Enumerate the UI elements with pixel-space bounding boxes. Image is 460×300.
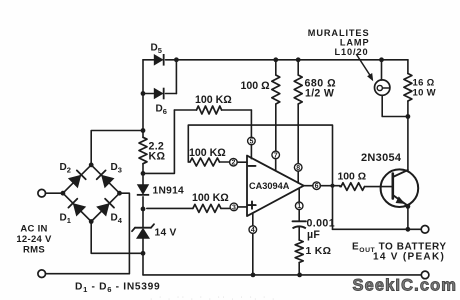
- diode 1N914: [137, 184, 149, 195]
- resistor 16 Ohm 10W: [404, 74, 412, 117]
- diode D6: [143, 60, 176, 100]
- node: 1K rail junction: [297, 273, 302, 278]
- node: pin4 rail junction: [251, 273, 256, 278]
- label 0.001 uF: [307, 218, 336, 242]
- label D5: [151, 43, 162, 56]
- svg-text:MURALITES: MURALITES: [308, 28, 370, 38]
- wire: feedback loop: [188, 125, 332, 229]
- transistor collector stroke: [393, 170, 408, 177]
- resistor 100K (pin 3): [147, 204, 230, 212]
- pin 2: [230, 158, 238, 166]
- label 16 Ohm 10 W: [413, 78, 436, 99]
- label D6: [156, 104, 167, 117]
- pin 1: [295, 202, 303, 210]
- svg-text:14 V (PEAK): 14 V (PEAK): [373, 252, 445, 263]
- label 100 KOhm (pin3): [192, 192, 229, 204]
- label 100 Ohm (pin7): [241, 80, 271, 92]
- node: lamp top junction: [379, 57, 384, 62]
- wire: lamp top lead: [381, 60, 383, 80]
- svg-text:2: 2: [231, 160, 235, 167]
- svg-text:0.001: 0.001: [307, 218, 336, 230]
- wire pin4 to edge and rail: [252, 213, 254, 275]
- op-amp U1 CA3094A triangle: [247, 156, 304, 217]
- capacitor C1 0.001uF: [293, 221, 306, 240]
- node: zener anode junction: [141, 251, 146, 256]
- node: bridge right: [117, 191, 122, 196]
- lamp L10/20: [375, 80, 390, 95]
- label D2: [60, 162, 71, 175]
- svg-text:3: 3: [232, 204, 236, 211]
- node: bridge+ junction on bus: [141, 128, 146, 133]
- node: 2.2K bottom junction: [141, 171, 146, 176]
- svg-text:1 KΩ: 1 KΩ: [306, 246, 332, 257]
- node: pin3 branch junction: [141, 207, 146, 212]
- wire pin1 to capacitor: [298, 210, 300, 221]
- diode D1 (bridge lower-left): [63, 193, 91, 221]
- svg-text:10 W: 10 W: [413, 88, 436, 99]
- faint caption fragment: [150, 292, 276, 300]
- op-amp minus sign: [249, 165, 256, 167]
- diode D5: [143, 54, 176, 66]
- label 1N914: [153, 186, 185, 197]
- wire: bridge top to left bus: [91, 131, 143, 165]
- wire: lamp bottom lead: [382, 95, 408, 116]
- terminal: Eout upper: [421, 226, 429, 234]
- pin 6: [313, 182, 321, 190]
- node: emitter-circle junction: [406, 204, 411, 209]
- resistor 680 Ohm (pin 8): [294, 60, 302, 164]
- wire pin1 from edge: [298, 189, 300, 203]
- label CA3094A: [249, 181, 290, 191]
- svg-text:L10/20: L10/20: [334, 47, 368, 57]
- label AC IN 12-24 V RMS: [16, 224, 52, 256]
- node: output/feedback junction: [330, 184, 334, 188]
- resistor 100 Ohm (pin 7): [272, 60, 280, 151]
- wire: bridge bottom to negative rail: [91, 222, 143, 254]
- svg-text:KΩ: KΩ: [149, 151, 166, 163]
- svg-text:RMS: RMS: [23, 245, 45, 256]
- wire apex to pin6: [304, 185, 313, 187]
- node: 680ohm top junction: [296, 57, 301, 62]
- pin 7: [272, 151, 280, 159]
- wire: 100K left leg down to bus: [143, 110, 174, 173]
- label 100 KOhm (pin5): [195, 94, 232, 106]
- resistor R 2.2K: [139, 137, 147, 163]
- terminal: Eout lower: [421, 271, 429, 279]
- node: bridge bottom: [89, 219, 94, 224]
- wire: collector up: [407, 117, 409, 171]
- diode D4 (bridge lower-right): [91, 193, 119, 221]
- transistor emitter stroke: [393, 195, 408, 206]
- wire: bottom rail: [143, 274, 421, 276]
- node: emitter junction on Eout wire: [406, 227, 411, 232]
- pin 5: [248, 137, 256, 145]
- resistor 1K: [295, 240, 303, 275]
- label 2N3054: [361, 152, 402, 164]
- label 100 Ohm base: [338, 172, 367, 183]
- label 14 V: [155, 228, 177, 239]
- svg-text:SeekIC.com: SeekIC.com: [353, 277, 458, 295]
- terminal: AC input lower: [38, 270, 46, 278]
- svg-text:2N3054: 2N3054: [361, 152, 402, 164]
- label D1: [60, 213, 71, 226]
- label D3: [111, 162, 122, 175]
- node: bridge left: [61, 191, 66, 196]
- wire pin2 to edge: [237, 161, 247, 163]
- wire: main left vertical bus: [142, 60, 144, 275]
- wire pin5 to edge: [250, 145, 252, 159]
- wire: bridge left to AC terminal: [46, 192, 63, 194]
- node: D5 cathode junction: [174, 57, 179, 62]
- wire: bridge right to lower AC terminal: [46, 193, 130, 274]
- svg-text:100 KΩ: 100 KΩ: [189, 147, 226, 159]
- pin 4: [249, 226, 257, 234]
- resistor 100K (pin 2): [188, 158, 229, 166]
- wire pin3 to edge: [238, 206, 247, 208]
- diode D2 (bridge upper-left): [63, 165, 91, 193]
- wire: 100K right leg down to pin 5: [250, 110, 252, 137]
- wire: top supply rail: [176, 59, 408, 61]
- watermark SeekIC.com: [353, 277, 458, 295]
- svg-text:1N914: 1N914: [153, 186, 185, 197]
- bridge frame wires: [0, 0, 1, 1]
- svg-text:6: 6: [315, 183, 319, 190]
- svg-text:100 KΩ: 100 KΩ: [192, 192, 229, 204]
- svg-text:LAMP: LAMP: [340, 38, 370, 48]
- resistor 100 Ohm (base): [340, 183, 392, 191]
- label 14 V PEAK: [373, 252, 445, 263]
- node: lamp bottom junction: [406, 114, 411, 119]
- transistor Q1 2N3054 circle: [381, 169, 419, 207]
- label 100 KOhm (pin2): [189, 147, 226, 159]
- op-amp plus sign: [248, 201, 255, 208]
- svg-text:AC IN: AC IN: [20, 224, 47, 235]
- label EOUT TO BATTERY: [352, 242, 447, 255]
- pin 3: [230, 203, 238, 211]
- diode D3 (bridge upper-right): [91, 165, 119, 193]
- svg-text:. · . ·· . · . ·· .: . · . ·· . · . ·· . · ·. · .: [150, 292, 276, 300]
- svg-text:14 V: 14 V: [155, 228, 177, 239]
- wire pin7 to edge: [275, 159, 277, 171]
- node: 100ohm top junction: [273, 57, 278, 62]
- zener diode 14V: [132, 224, 154, 239]
- label 2.2 K: [149, 141, 166, 163]
- svg-text:12-24 V: 12-24 V: [16, 234, 52, 245]
- wire: emitter down to Eout: [407, 206, 409, 229]
- label 1 KOhm: [306, 246, 332, 257]
- transistor base bar: [391, 174, 394, 199]
- wire: Eout positive: [333, 228, 422, 230]
- terminal: AC input upper: [38, 189, 46, 197]
- label D1-D6 - 1N5399: [75, 282, 160, 295]
- label 680 Ohm 1/2W: [305, 78, 337, 100]
- wire pin6 output: [320, 185, 340, 187]
- svg-text:µF: µF: [307, 229, 320, 241]
- pin 8: [294, 164, 302, 172]
- node: bridge top: [89, 163, 94, 168]
- resistor 100K (pin 5): [174, 106, 251, 114]
- svg-text:100 Ω: 100 Ω: [338, 172, 367, 183]
- wire pin8 to edge: [297, 171, 299, 183]
- svg-text:1/2 W: 1/2 W: [305, 88, 334, 100]
- svg-text:100 KΩ: 100 KΩ: [195, 94, 232, 106]
- svg-text:CA3094A: CA3094A: [249, 181, 290, 191]
- label MURALITES LAMP L10/20: [308, 28, 370, 57]
- node: D6 anode junction: [141, 91, 146, 96]
- svg-text:100 Ω: 100 Ω: [241, 80, 271, 92]
- label D4: [111, 213, 123, 226]
- arrow from label to lamp: [357, 55, 374, 82]
- wire: top rail right corner down: [407, 60, 409, 74]
- svg-text:D1 - D6 - IN5399: D1 - D6 - IN5399: [75, 282, 160, 295]
